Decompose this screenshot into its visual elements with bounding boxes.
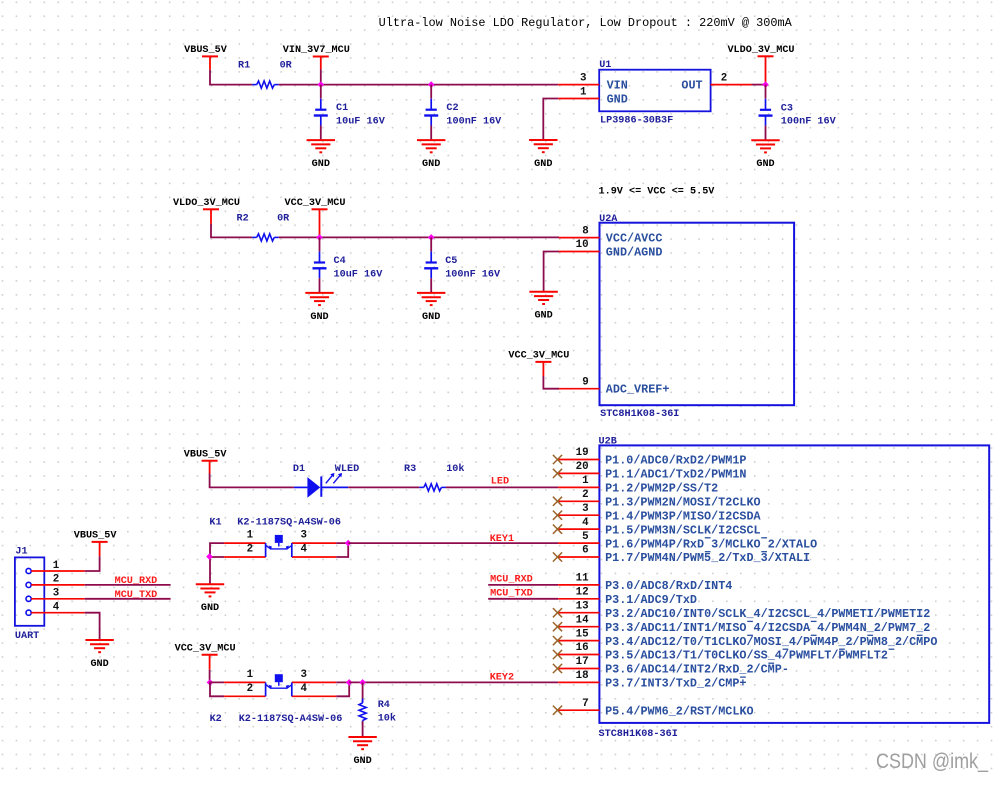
svg-text:1: 1 <box>582 475 589 487</box>
svg-text:VCC_3V_MCU: VCC_3V_MCU <box>175 642 236 654</box>
wire C2 to GND <box>430 126 432 141</box>
wire J1 pin4 to GND <box>85 613 100 640</box>
no-connect X on pin 3 <box>553 511 562 520</box>
ground (R4) <box>348 737 376 767</box>
svg-text:P1.2/PWM2P/SS/T2: P1.2/PWM2P/SS/T2 <box>605 482 718 496</box>
note VCC range <box>599 185 716 197</box>
capacitor C2 label <box>446 102 502 127</box>
svg-text:C4: C4 <box>334 255 346 267</box>
svg-text:K2-1187SQ-A4SW-06: K2-1187SQ-A4SW-06 <box>237 517 341 529</box>
wire R2 to U2A VCC <box>279 236 559 238</box>
U2B pin 6 P1.7 <box>558 545 810 566</box>
svg-text:8: 8 <box>582 225 588 237</box>
power port VLDO_3V_MCU (left) <box>173 197 240 224</box>
U2B pin 13 P3.2 <box>558 600 930 621</box>
U2B pin 18 P3.7 <box>558 670 746 691</box>
no-connect X on pin 7 <box>553 706 562 715</box>
svg-text:10: 10 <box>576 239 589 251</box>
power port VCC_3V_MCU (K2) <box>175 642 236 669</box>
wire R3 to P1.2 <box>446 486 558 488</box>
U2B pin 4 P1.5 <box>558 517 761 538</box>
svg-text:19: 19 <box>576 447 589 459</box>
svg-text:13: 13 <box>576 600 589 612</box>
svg-text:P1.4/PWM3P/MISO/I2CSDA: P1.4/PWM3P/MISO/I2CSDA <box>605 509 761 523</box>
svg-text:VBUS_5V: VBUS_5V <box>184 448 227 460</box>
resistor R1 0R <box>252 81 279 88</box>
ground (C3) <box>751 140 779 170</box>
U2B pin 3 P1.4 <box>558 503 761 524</box>
svg-text:3: 3 <box>580 73 586 85</box>
svg-text:2: 2 <box>247 683 253 695</box>
svg-text:WLED: WLED <box>335 463 359 475</box>
wire MCU_TXD (J1) <box>85 598 171 600</box>
svg-text:VIN_3V7_MCU: VIN_3V7_MCU <box>283 44 350 56</box>
svg-text:GND: GND <box>90 658 108 670</box>
svg-text:1.9V <= VCC <= 5.5V: 1.9V <= VCC <= 5.5V <box>599 185 716 197</box>
svg-text:VLDO_3V_MCU: VLDO_3V_MCU <box>727 44 794 56</box>
svg-text:GND: GND <box>534 158 552 170</box>
no-connect X on pin 13 <box>553 608 562 617</box>
svg-text:C2: C2 <box>446 102 458 114</box>
svg-text:K1: K1 <box>209 517 221 529</box>
svg-text:3: 3 <box>582 503 589 515</box>
J1 name UART <box>15 630 39 642</box>
capacitor C4 label <box>334 255 384 281</box>
svg-text:4: 4 <box>53 602 60 614</box>
svg-text:P1.7/PWM4N/PWM5_2/TxD_3/XTALI: P1.7/PWM4N/PWM5_2/TxD_3/XTALI <box>605 551 810 565</box>
capacitor C3 label <box>781 102 837 127</box>
wire D1 to R3 <box>348 486 419 488</box>
U1 pin name OUT <box>681 79 702 93</box>
wire VCC to ADC_VREF+ <box>543 376 559 389</box>
connector J1 box <box>15 557 44 625</box>
svg-text:GND: GND <box>310 311 328 323</box>
svg-text:P3.5/ADC13/T1/T0CLKO/SS_4/PWMF: P3.5/ADC13/T1/T0CLKO/SS_4/PWMFLT/PWMFLT2 <box>605 649 888 663</box>
no-connect X on pin 4 <box>553 525 562 534</box>
svg-text:10uF 16V: 10uF 16V <box>334 269 384 281</box>
svg-text:2: 2 <box>721 73 727 85</box>
wire VBUS_5V to R1 <box>210 70 252 85</box>
wire C1 to GND <box>320 126 322 141</box>
wire C3 to GND <box>765 126 767 141</box>
svg-text:R1: R1 <box>238 60 250 72</box>
svg-text:14: 14 <box>576 614 590 626</box>
U1 pin 3 number <box>580 73 586 85</box>
U2B pin 15 P3.4 <box>558 628 937 649</box>
wire to C5 <box>430 237 432 251</box>
svg-text:STC8H1K08-36I: STC8H1K08-36I <box>599 728 678 740</box>
svg-text:2: 2 <box>582 489 589 501</box>
svg-text:GND: GND <box>607 93 628 107</box>
no-connect X on pin 17 <box>553 664 562 673</box>
wire VLDO to C3 <box>765 85 767 99</box>
U2A pin 10 number <box>576 239 589 251</box>
U1 pin 1 stub <box>558 98 599 100</box>
J1 designator <box>15 545 27 557</box>
net label MCU_TXD (J1) <box>115 589 158 601</box>
resistor R1 label <box>238 60 293 72</box>
no-connect X on pin 16 <box>553 650 562 659</box>
switch K2 labels <box>210 713 343 725</box>
net label KEY2 <box>490 671 514 683</box>
wire MCU_RXD (J1) <box>85 584 171 586</box>
svg-text:VIN: VIN <box>607 79 628 93</box>
U2B pin 20 P1.1 <box>558 461 746 482</box>
svg-text:R3: R3 <box>404 463 416 475</box>
wire K2 right join <box>336 682 349 696</box>
svg-text:0R: 0R <box>277 212 290 224</box>
svg-text:4: 4 <box>300 544 307 556</box>
junction node R4 tap <box>359 679 366 686</box>
capacitor C3 100nF <box>759 99 773 126</box>
U2A pin name ADC_VREF+ <box>606 383 670 397</box>
wire K2 to R4 <box>362 682 364 702</box>
wire VLDO to R2 <box>211 224 252 238</box>
svg-text:P3.2/ADC10/INT0/SCLK_4/I2CSCL_: P3.2/ADC10/INT0/SCLK_4/I2CSCL_4/PWMETI/P… <box>605 607 930 621</box>
wire MCU_RXD (U2B) <box>488 584 558 586</box>
wire U2A GND pin <box>544 252 559 292</box>
power port VBUS_5V (LED) <box>184 448 227 473</box>
svg-text:17: 17 <box>576 656 589 668</box>
watermark CSDN <box>876 750 988 773</box>
svg-text:P5.4/PWM6_2/RST/MCLKO: P5.4/PWM6_2/RST/MCLKO <box>605 704 754 718</box>
svg-text:MCU_TXD: MCU_TXD <box>490 588 533 600</box>
resistor R3 label <box>404 463 465 475</box>
svg-text:C1: C1 <box>336 102 348 114</box>
junction node VCC_3V_MCU <box>316 234 323 241</box>
U2A pin name GND/AGND <box>606 246 663 260</box>
svg-text:1: 1 <box>247 669 254 681</box>
U2A pin 9 number <box>582 376 588 388</box>
net label MCU_TXD (U2B) <box>490 588 533 600</box>
svg-text:1: 1 <box>53 560 60 572</box>
capacitor C4 10uF <box>313 252 327 279</box>
svg-text:J1: J1 <box>15 545 27 557</box>
junction node VLDO_3V_MCU <box>762 81 769 88</box>
resistor R2 0R <box>252 234 279 241</box>
svg-text:P1.3/PWM2N/MOSI/T2CLKO: P1.3/PWM2N/MOSI/T2CLKO <box>605 496 761 510</box>
no-connect X on pin 2 <box>553 497 562 506</box>
svg-text:P3.7/INT3/TxD_2/CMP+: P3.7/INT3/TxD_2/CMP+ <box>605 677 746 691</box>
svg-text:20: 20 <box>576 461 589 473</box>
svg-text:VBUS_5V: VBUS_5V <box>74 530 117 542</box>
svg-text:GND/AGND: GND/AGND <box>606 246 663 260</box>
svg-text:U2A: U2A <box>599 213 618 225</box>
wire R4 to GND <box>362 721 364 737</box>
svg-text:K2-1187SQ-A4SW-06: K2-1187SQ-A4SW-06 <box>239 713 343 725</box>
power port VIN_3V7_MCU <box>283 44 350 69</box>
svg-text:GND: GND <box>201 602 219 614</box>
wire C4 to GND <box>319 278 321 293</box>
capacitor C2 100nF <box>424 99 438 126</box>
svg-text:10uF 16V: 10uF 16V <box>336 115 386 127</box>
capacitor C1 10uF <box>314 99 328 126</box>
junction node K1 left <box>206 553 213 560</box>
transistor U2B box <box>599 445 989 723</box>
U1 part number <box>600 115 673 127</box>
svg-text:CSDN @imk_: CSDN @imk_ <box>876 750 988 773</box>
U2B pin 2 P1.3 <box>558 489 761 510</box>
svg-text:16: 16 <box>576 642 589 654</box>
svg-text:100nF 16V: 100nF 16V <box>446 115 502 127</box>
capacitor C1 label <box>336 102 386 127</box>
resistor R2 label <box>237 212 291 224</box>
svg-text:P1.0/ADC0/RxD2/PWM1P: P1.0/ADC0/RxD2/PWM1P <box>605 454 746 468</box>
U2B pin 14 P3.3 <box>558 614 930 635</box>
svg-text:5: 5 <box>582 531 589 543</box>
svg-text:VCC_3V_MCU: VCC_3V_MCU <box>285 197 346 209</box>
U2A part number <box>600 408 679 420</box>
switch K1 labels <box>209 517 341 529</box>
svg-text:3: 3 <box>53 588 59 600</box>
svg-text:C3: C3 <box>781 102 793 114</box>
net label MCU_RXD (U2B) <box>490 574 533 586</box>
U2B pin 7 P5.4 <box>558 698 754 719</box>
svg-text:100nF 16V: 100nF 16V <box>781 115 837 127</box>
no-connect X on pin 15 <box>553 636 562 645</box>
svg-text:4: 4 <box>300 683 307 695</box>
wire to C1 <box>320 85 322 99</box>
svg-text:10k: 10k <box>446 463 464 475</box>
U2B designator <box>599 436 618 448</box>
U1 pin name VIN <box>607 79 628 93</box>
svg-text:11: 11 <box>576 573 590 585</box>
wire KEY2 <box>349 681 558 683</box>
junction node C5 <box>428 234 435 241</box>
svg-text:LED: LED <box>491 476 509 488</box>
svg-text:P3.6/ADC14/INT2/RxD_2/CMP-: P3.6/ADC14/INT2/RxD_2/CMP- <box>605 663 789 677</box>
wire VBUS to D1 <box>210 474 294 488</box>
U2A pin name VCC/AVCC <box>606 232 663 246</box>
switch K1 K2-1187SQ-A4SW-06 <box>210 530 336 557</box>
U1 pin 3 stub <box>558 84 599 86</box>
ground (K1) <box>196 584 224 614</box>
U2A pin 8 number <box>582 225 588 237</box>
junction node K2 left <box>207 679 214 686</box>
U2B pin 11 P3.0 <box>558 573 732 594</box>
svg-text:4: 4 <box>582 517 589 529</box>
net label KEY1 <box>490 533 514 545</box>
svg-text:R4: R4 <box>378 699 390 711</box>
svg-text:P1.1/ADC1/TxD2/PWM1N: P1.1/ADC1/TxD2/PWM1N <box>605 468 746 482</box>
svg-text:3: 3 <box>300 669 306 681</box>
svg-text:GND: GND <box>353 755 371 767</box>
junction node K1 right <box>345 540 352 547</box>
svg-text:U2B: U2B <box>599 436 618 448</box>
wire MCU_TXD (U2B) <box>488 598 558 600</box>
wire to C2 <box>430 85 432 99</box>
op-amp U1 box <box>599 70 710 112</box>
svg-text:GND: GND <box>422 311 440 323</box>
U2A pin 8 stub <box>559 237 600 239</box>
svg-text:OUT: OUT <box>681 79 702 93</box>
U1 pin 1 number <box>580 87 587 99</box>
U2A pin 10 stub <box>559 251 600 253</box>
svg-text:VBUS_5V: VBUS_5V <box>184 44 227 56</box>
resistor R3 10k <box>419 484 446 491</box>
U1 designator <box>599 59 611 71</box>
svg-text:1: 1 <box>580 87 587 99</box>
svg-text:1: 1 <box>247 530 254 542</box>
svg-text:R2: R2 <box>237 212 249 224</box>
svg-text:K2: K2 <box>210 713 222 725</box>
net label MCU_RXD (J1) <box>115 575 158 587</box>
junction node C2 <box>428 81 435 88</box>
wire K1 right join <box>336 543 348 557</box>
svg-text:P1.6/PWM4P/RxD 3/MCLKO 2/XTALO: P1.6/PWM4P/RxD 3/MCLKO 2/XTALO <box>605 537 817 551</box>
ground (C5) <box>417 293 445 323</box>
net label LED <box>491 476 509 488</box>
svg-text:LP3986-30B3F: LP3986-30B3F <box>600 115 673 127</box>
resistor R4 10k <box>359 698 366 725</box>
wire VIN_3V7_MCU stub <box>320 69 322 85</box>
no-connect X on pin 14 <box>553 622 562 631</box>
junction node VIN_3V7_MCU <box>318 81 325 88</box>
ground (C4) <box>305 293 333 323</box>
power port VBUS_5V (top) <box>184 44 227 70</box>
svg-text:10k: 10k <box>378 713 396 725</box>
title text <box>379 16 793 30</box>
J1 pin 2 <box>26 574 85 588</box>
ground (C1) <box>307 140 335 170</box>
power port VCC_3V_MCU (ADC_VREF) <box>508 350 569 376</box>
U2B pin 5 P1.6 <box>558 531 817 552</box>
U2B pin 16 P3.5 <box>558 642 894 663</box>
svg-text:18: 18 <box>576 670 589 682</box>
svg-text:15: 15 <box>576 628 589 640</box>
power port VLDO_3V_MCU (top right) <box>727 44 794 85</box>
svg-text:2: 2 <box>247 544 253 556</box>
wire VCC to K2 <box>209 670 211 683</box>
no-connect X on pin 20 <box>553 469 562 478</box>
svg-text:7: 7 <box>582 698 589 710</box>
J1 pin 3 <box>26 588 85 602</box>
switch K2 K2-1187SQ-A4SW-06 <box>210 669 336 696</box>
svg-text:0R: 0R <box>280 60 293 72</box>
ground (C2) <box>417 140 445 170</box>
svg-text:2: 2 <box>53 574 59 586</box>
svg-text:GND: GND <box>534 310 552 322</box>
power port VCC_3V_MCU (mid) <box>285 197 346 237</box>
U2B pin 1 P1.2 <box>558 475 718 496</box>
svg-text:MCU_RXD: MCU_RXD <box>490 574 533 586</box>
svg-text:GND: GND <box>422 158 440 170</box>
svg-text:U1: U1 <box>599 59 611 71</box>
svg-text:P3.0/ADC8/RxD/INT4: P3.0/ADC8/RxD/INT4 <box>605 579 732 593</box>
svg-text:STC8H1K08-36I: STC8H1K08-36I <box>600 408 679 420</box>
svg-text:VCC/AVCC: VCC/AVCC <box>606 232 663 246</box>
U2A pin 9 stub <box>559 388 600 390</box>
svg-text:P3.3/ADC11/INT1/MISO 4/I2CSDA: P3.3/ADC11/INT1/MISO 4/I2CSDA 4/PWM4N_2/… <box>605 621 930 635</box>
svg-text:VCC_3V_MCU: VCC_3V_MCU <box>508 350 569 362</box>
svg-text:Ultra-low Noise LDO Regulator,: Ultra-low Noise LDO Regulator, Low Dropo… <box>379 16 793 30</box>
wire R1 to U1 VIN <box>279 84 558 86</box>
no-connect X on pin 6 <box>553 552 562 561</box>
wire KEY1 <box>348 542 558 544</box>
svg-text:P3.1/ADC9/TxD: P3.1/ADC9/TxD <box>605 593 697 607</box>
diode D1 labels <box>293 463 359 475</box>
U1 pin name GND <box>607 93 628 107</box>
wire C5 to GND <box>430 278 432 293</box>
U2B pin 12 P3.1 <box>558 587 697 608</box>
ground (U1) <box>529 140 557 170</box>
svg-text:12: 12 <box>576 587 589 599</box>
svg-text:P3.4/ADC12/T0/T1CLKO/MOSI_4/PW: P3.4/ADC12/T0/T1CLKO/MOSI_4/PWM4P_2/PWM8… <box>605 635 937 649</box>
capacitor C5 100nF <box>424 252 438 279</box>
capacitor C5 label <box>445 255 501 281</box>
svg-text:6: 6 <box>582 545 589 557</box>
wire U1 OUT to VLDO node <box>752 84 766 86</box>
no-connect X on pin 19 <box>553 455 562 464</box>
wire J1 pin1 to VBUS <box>85 556 100 571</box>
U2A designator <box>599 213 618 225</box>
LED D1 WLED <box>294 473 348 498</box>
wire U1 GND pin <box>543 99 558 141</box>
ground (U2A) <box>529 292 557 322</box>
U1 pin 2 stub <box>711 84 752 86</box>
svg-text:VLDO_3V_MCU: VLDO_3V_MCU <box>173 197 240 209</box>
J1 pin 4 <box>26 602 85 616</box>
op-amp U2A box <box>600 223 795 406</box>
svg-text:GND: GND <box>312 158 330 170</box>
svg-text:ADC_VREF+: ADC_VREF+ <box>606 383 670 397</box>
svg-text:3: 3 <box>300 530 306 542</box>
U1 pin 2 number <box>721 73 727 85</box>
ground (J1) <box>85 640 113 670</box>
J1 pin 1 <box>26 560 85 574</box>
junction node K2 right <box>346 679 353 686</box>
svg-text:GND: GND <box>756 158 774 170</box>
wire K1 pins to GND <box>209 557 211 584</box>
power port VBUS_5V (J1) <box>74 530 117 557</box>
U2B part number <box>599 728 678 740</box>
resistor R4 label <box>378 699 396 725</box>
svg-text:P1.5/PWM3N/SCLK/I2CSCL: P1.5/PWM3N/SCLK/I2CSCL <box>605 523 761 537</box>
svg-text:UART: UART <box>15 630 39 642</box>
U2B pin 17 P3.6 <box>558 656 789 677</box>
svg-text:100nF 16V: 100nF 16V <box>445 269 501 281</box>
U2B pin 19 P1.0 <box>558 447 746 468</box>
svg-text:D1: D1 <box>293 463 305 475</box>
svg-text:9: 9 <box>582 376 588 388</box>
wire to C4 <box>319 237 321 251</box>
svg-text:C5: C5 <box>445 255 457 267</box>
